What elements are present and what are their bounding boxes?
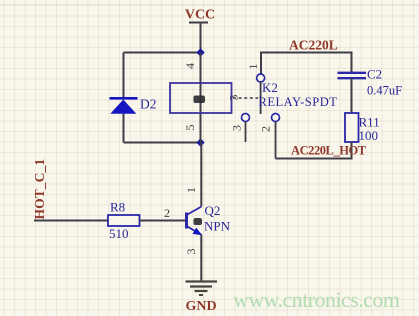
- wire Q2 emitter to GND: [200, 235, 202, 282]
- wire D2 left branch down: [123, 53, 125, 99]
- svg-text:5: 5: [183, 125, 197, 131]
- svg-text:D2: D2: [140, 97, 157, 112]
- wire relay to Q2 collector: [200, 143, 202, 207]
- svg-text:2: 2: [164, 206, 170, 220]
- svg-text:0.47uF: 0.47uF: [367, 84, 402, 98]
- resistor R8: [108, 200, 140, 242]
- svg-text:3: 3: [184, 249, 198, 255]
- relay pin 2 contact: [272, 114, 280, 159]
- junction at relay coil bottom node: [196, 138, 204, 146]
- svg-text:NPN: NPN: [204, 219, 231, 234]
- wire below D2: [123, 114, 125, 143]
- svg-text:1: 1: [184, 187, 198, 193]
- wire AC220L horizontal: [261, 52, 353, 54]
- svg-text:Q2: Q2: [205, 203, 221, 218]
- svg-text:R8: R8: [110, 200, 125, 215]
- wire relay coil vertical: [200, 53, 202, 143]
- svg-text:AC220L_HOT: AC220L_HOT: [291, 144, 367, 158]
- relay pin 3 contact: [242, 114, 250, 143]
- relay pin 1 wire and contact: [257, 52, 265, 83]
- wire R8 to Q2 base: [140, 220, 187, 222]
- wire R11 down: [351, 142, 353, 159]
- wire bottom of D2 loop: [124, 142, 201, 144]
- wire C2 to R11: [351, 78, 353, 113]
- svg-text:RELAY-SPDT: RELAY-SPDT: [259, 95, 338, 109]
- svg-text:3: 3: [227, 95, 241, 101]
- capacitor C2: [338, 67, 403, 98]
- svg-text:K2: K2: [262, 80, 278, 95]
- svg-text:510: 510: [109, 226, 129, 241]
- svg-text:3: 3: [230, 125, 244, 131]
- svg-text:VCC: VCC: [185, 8, 215, 23]
- svg-text:1: 1: [246, 64, 260, 70]
- wire AC220L_HOT horizontal: [276, 158, 353, 160]
- wire HOT_C_1 to R8: [34, 220, 108, 222]
- svg-text:100: 100: [359, 128, 379, 143]
- relay K2 coil box: [170, 83, 232, 113]
- svg-text:www.cntronics.com: www.cntronics.com: [233, 287, 400, 312]
- relay actuation dashed link: [233, 97, 258, 99]
- svg-text:4: 4: [183, 63, 197, 69]
- svg-text:AC220L: AC220L: [289, 38, 338, 53]
- resistor R11: [345, 113, 380, 143]
- diode D2: [110, 97, 157, 114]
- junction at VCC node: [196, 48, 204, 56]
- svg-text:C2: C2: [367, 67, 382, 82]
- svg-text:GND: GND: [185, 299, 216, 314]
- wire VCC horizontal top (left segment to D2 branch): [124, 52, 201, 54]
- svg-text:2: 2: [259, 126, 273, 132]
- transistor Q2: [187, 203, 231, 235]
- power port VCC: [185, 8, 215, 53]
- svg-text:HOT_C_1: HOT_C_1: [32, 159, 47, 220]
- ground: [185, 282, 217, 315]
- relay armature: [260, 82, 262, 114]
- wire AC220L corner down to C2: [351, 53, 353, 73]
